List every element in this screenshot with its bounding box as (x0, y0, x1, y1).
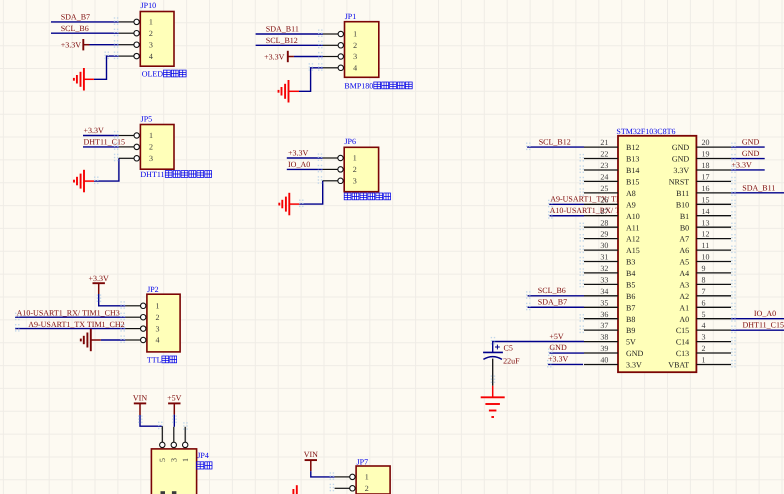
svg-text:2: 2 (149, 143, 153, 152)
svg-text:5V: 5V (626, 338, 636, 347)
svg-text:32: 32 (600, 264, 608, 273)
svg-text:B7: B7 (626, 303, 635, 312)
svg-text:2: 2 (149, 29, 153, 38)
svg-text:SCL_B6: SCL_B6 (61, 24, 89, 33)
ground (JP1) (289, 90, 300, 92)
svg-text:3: 3 (149, 154, 153, 163)
JP4 bottom pin number fragments (161, 491, 166, 494)
svg-text:A2: A2 (679, 292, 689, 301)
svg-text:37: 37 (600, 321, 608, 330)
U1 pin 18 (3.3V) (696, 169, 731, 171)
connector JP5 (140, 125, 174, 170)
U1 pin 5 (A0) (696, 318, 731, 320)
svg-text:A6: A6 (679, 246, 689, 255)
svg-text:OLED: OLED (142, 69, 164, 78)
svg-text:BMP180: BMP180 (344, 81, 373, 90)
svg-text:14: 14 (702, 207, 710, 216)
U1 pin 40 (3.3V) (584, 364, 618, 366)
wire A10-USART1_RX to JP2 pin2 (15, 316, 125, 318)
wire U1 pin19 to GND (731, 158, 765, 160)
svg-text:+3.3V: +3.3V (89, 274, 110, 283)
ground (partial, bottom edge) (296, 485, 298, 494)
connector JP10 (140, 12, 174, 67)
ground (JP2, dark) (91, 339, 101, 341)
wire U1 pin4 DHT11_C15 (731, 329, 784, 331)
svg-text:2: 2 (353, 165, 357, 174)
svg-text:+5V: +5V (167, 393, 182, 402)
svg-text:A3: A3 (679, 280, 689, 289)
wire +5V to JP4 pin3 (173, 415, 175, 427)
U1 pin 1 (VBAT) (696, 364, 731, 366)
svg-text:GND: GND (672, 143, 690, 152)
U1 pin 26 (A9) (584, 203, 618, 205)
svg-text:12: 12 (702, 230, 710, 239)
wire JP6 pin3 to ground (299, 181, 322, 204)
svg-text:IO_A0: IO_A0 (288, 160, 310, 169)
ground (C5) (492, 386, 494, 398)
svg-text:SCL_B12: SCL_B12 (539, 138, 571, 147)
wire C5 to ground (492, 359, 494, 386)
svg-text:B4: B4 (626, 269, 635, 278)
svg-text:20: 20 (702, 138, 710, 147)
svg-text:16: 16 (702, 184, 710, 193)
U1 pin 17 (NRST) (696, 180, 731, 182)
svg-text:2: 2 (156, 313, 160, 322)
wire +5V rail from C5 to U1 pin38 (493, 342, 584, 353)
svg-text:GND: GND (549, 343, 567, 352)
wire U1 pin5 IO_A0 (731, 318, 784, 320)
svg-text:+3.3V: +3.3V (732, 161, 753, 170)
svg-text:2: 2 (702, 344, 706, 353)
svg-text:5: 5 (702, 310, 706, 319)
svg-text:B3: B3 (626, 258, 635, 267)
svg-text:A10-USART1_RX/ TIM1_CH3: A10-USART1_RX/ TIM1_CH3 (17, 308, 120, 317)
svg-text:6: 6 (702, 298, 706, 307)
svg-text:A0: A0 (679, 315, 689, 324)
JP5 pin 3 (119, 157, 134, 159)
wire U1 pin16 SDA_B11 (731, 192, 784, 194)
U1 pin 15 (B10) (696, 203, 731, 205)
connector JP7 (356, 466, 390, 494)
wire JP5 pin3 to ground (94, 158, 119, 181)
U1 pin 11 (A6) (696, 249, 731, 251)
svg-text:5: 5 (158, 458, 167, 462)
svg-text:DHT11_C15: DHT11_C15 (84, 138, 125, 147)
svg-text:STM32F103C8T6: STM32F103C8T6 (616, 127, 675, 136)
svg-text:B15: B15 (626, 178, 639, 187)
svg-text:3: 3 (353, 52, 357, 61)
svg-text:2: 2 (365, 484, 369, 493)
wire U1 pin18 to +3.3V (731, 169, 765, 171)
U1 pin 33 (B5) (584, 283, 618, 285)
wire JP10 pin4 to ground (94, 56, 119, 79)
svg-text:4: 4 (149, 52, 153, 61)
svg-text:34: 34 (600, 287, 608, 296)
svg-text:39: 39 (600, 344, 608, 353)
svg-text:21: 21 (600, 138, 608, 147)
JP4 pin 3 (173, 427, 175, 443)
U1 pin 23 (B14) (584, 169, 618, 171)
wire +3.3V to U1 pin40 (548, 363, 583, 365)
U1 pin 35 (B7) (584, 306, 618, 308)
svg-text:B13: B13 (626, 155, 639, 164)
svg-text:JP1: JP1 (345, 12, 357, 21)
svg-text:VIN: VIN (304, 450, 318, 459)
wire JP2 pin4 to ground (101, 339, 126, 341)
JP10 pin 3 (119, 44, 134, 46)
svg-text:DHT11: DHT11 (140, 170, 164, 179)
svg-text:GND: GND (742, 149, 760, 158)
svg-text:GND: GND (672, 155, 690, 164)
U1 pin 14 (B1) (696, 215, 731, 217)
svg-text:15: 15 (702, 195, 710, 204)
svg-text:31: 31 (600, 253, 608, 262)
svg-text:SDA_B11: SDA_B11 (742, 183, 775, 192)
svg-text:29: 29 (600, 230, 608, 239)
svg-text:30: 30 (600, 241, 608, 250)
svg-text:22uF: 22uF (503, 357, 520, 366)
U1 pin 25 (A8) (584, 192, 618, 194)
power +3.3V for JP10 pin3 (82, 39, 84, 50)
svg-text:+3.3V: +3.3V (288, 149, 309, 158)
JP5 pin 2 (119, 146, 134, 148)
svg-text:C5: C5 (504, 343, 513, 352)
svg-text:13: 13 (702, 218, 710, 227)
svg-text:VBAT: VBAT (668, 361, 689, 370)
U1 pin 13 (B0) (696, 226, 731, 228)
JP1 pin 1 (323, 33, 338, 35)
svg-text:3.3V: 3.3V (673, 166, 689, 175)
U1 pin 20 (GND) (696, 146, 731, 148)
svg-text:1: 1 (181, 458, 190, 462)
svg-text:B8: B8 (626, 315, 635, 324)
JP4 pin 5 (161, 426, 163, 442)
ground (JP6) (289, 203, 299, 205)
wire to U1 pin27 (A10 USART1_RX) (550, 215, 584, 217)
svg-text:A15: A15 (626, 246, 640, 255)
wire DHT11_C15 to JP5 pin2 (83, 146, 119, 148)
svg-text:NRST: NRST (669, 178, 690, 187)
wire SCL_B6 to JP10 pin2 (51, 32, 119, 34)
svg-text:25: 25 (600, 184, 608, 193)
connector JP4 (151, 449, 196, 494)
svg-text:24: 24 (600, 173, 608, 182)
U1 pin 4 (C15) (696, 329, 731, 331)
wire SCL_B12 to U1 pin21 (527, 146, 584, 148)
JP1 pin 2 (323, 44, 338, 46)
svg-text:A7: A7 (679, 235, 689, 244)
U1 pin 12 (A7) (696, 238, 731, 240)
svg-text:SDA_B7: SDA_B7 (538, 298, 567, 307)
capacitor C5 22uF (483, 351, 503, 353)
wire IO_A0 to JP6 pin2 (287, 168, 323, 170)
svg-text:A12: A12 (626, 235, 640, 244)
svg-text:A9: A9 (626, 200, 636, 209)
svg-text:B1: B1 (680, 212, 689, 221)
wire VIN to JP4 pin5 (140, 415, 162, 426)
svg-text:TTL: TTL (147, 355, 162, 364)
JP7 pin 2 (335, 487, 350, 489)
U1 pin 2 (C13) (696, 352, 731, 354)
power VIN for JP4 (134, 402, 146, 404)
svg-text:B6: B6 (626, 292, 635, 301)
svg-text:SDA_B11: SDA_B11 (266, 25, 299, 34)
op-amp/MCU U1 STM32F103C8T6 body (618, 136, 696, 372)
svg-text:B9: B9 (626, 326, 635, 335)
U1 pin 7 (A2) (696, 295, 731, 297)
wire VIN to JP7 pin1 (311, 471, 335, 477)
svg-text:9: 9 (702, 264, 706, 273)
U1 pin 24 (B15) (584, 180, 618, 182)
power +3.3V for JP1 pin3 (287, 51, 289, 62)
wire JP1 pin4 to ground (299, 68, 323, 92)
JP6 pin 2 (323, 168, 338, 170)
U1 pin 39 (GND) (584, 352, 618, 354)
svg-text:DHT11_C15: DHT11_C15 (743, 320, 784, 329)
svg-text:JP10: JP10 (141, 1, 157, 10)
U1 pin 19 (GND) (696, 158, 731, 160)
svg-text:19: 19 (702, 150, 710, 159)
svg-text:1: 1 (702, 356, 706, 365)
svg-text:B10: B10 (676, 200, 689, 209)
svg-text:C13: C13 (676, 349, 689, 358)
U1 pin 6 (A1) (696, 306, 731, 308)
svg-text:17: 17 (702, 173, 710, 182)
svg-text:35: 35 (600, 298, 608, 307)
svg-text:JP7: JP7 (357, 457, 369, 466)
svg-text:27: 27 (600, 207, 608, 216)
svg-text:4: 4 (353, 64, 357, 73)
JP6 pin 3 (323, 180, 338, 182)
JP10 pin 4 (119, 55, 134, 57)
wire to U1 pin26 (A9 USART1_TX) (549, 203, 584, 205)
JP10 pin 1 (119, 21, 134, 23)
JP6 pin 1 (323, 157, 338, 159)
power VIN for JP7 (305, 459, 317, 461)
U1 pin 22 (B13) (584, 158, 618, 160)
svg-text:VIN: VIN (133, 393, 147, 402)
svg-text:3: 3 (170, 458, 179, 462)
svg-text:10: 10 (702, 253, 710, 262)
U1 pin 29 (A12) (584, 238, 618, 240)
U1 pin 27 (A10) (584, 215, 618, 217)
U1 pin 32 (B4) (584, 272, 618, 274)
U1 pin 10 (A5) (696, 261, 731, 263)
svg-text:23: 23 (600, 161, 608, 170)
svg-text:1: 1 (365, 473, 369, 482)
U1 pin 34 (B6) (584, 295, 618, 297)
svg-text:+3.3V: +3.3V (548, 355, 569, 364)
power +3.3V for JP2 pin1 (93, 282, 105, 284)
svg-text:11: 11 (702, 241, 710, 250)
svg-text:+3.3V: +3.3V (264, 53, 285, 62)
svg-text:22: 22 (600, 150, 608, 159)
JP5 pin 1 (119, 135, 134, 137)
svg-text:3: 3 (156, 324, 160, 333)
wire SCL_B6 to U1 pin34 (528, 295, 584, 297)
JP2 pin 1 (125, 305, 140, 307)
svg-text:SCL_B12: SCL_B12 (266, 36, 298, 45)
svg-text:1: 1 (156, 302, 160, 311)
svg-text:+3.3V: +3.3V (61, 41, 82, 50)
title switch (CJK) (197, 462, 204, 469)
svg-text:+5V: +5V (549, 332, 564, 341)
svg-text:3: 3 (149, 40, 153, 49)
svg-text:A11: A11 (626, 223, 639, 232)
connector JP1 (345, 22, 379, 78)
svg-text:1: 1 (353, 154, 357, 163)
title harmful gas detection (CJK) (344, 193, 351, 200)
wire A9-USART1_TX to JP2 pin3 (15, 328, 125, 330)
wire SDA_B11 to JP1 pin1 (256, 33, 323, 35)
svg-text:A4: A4 (679, 269, 689, 278)
svg-text:A10: A10 (626, 212, 640, 221)
U1 pin 21 (B12) (584, 146, 618, 148)
svg-text:1: 1 (149, 131, 153, 140)
U1 pin 30 (A15) (584, 249, 618, 251)
U1 pin 31 (B3) (584, 261, 618, 263)
svg-text:A9-USART1_TX TIM1_CH2: A9-USART1_TX TIM1_CH2 (28, 320, 124, 329)
JP2 pin 4 (125, 339, 140, 341)
wire U1 pin20 to GND (731, 146, 765, 148)
U1 pin 37 (B9) (584, 329, 618, 331)
svg-text:JP2: JP2 (147, 285, 159, 294)
svg-text:1: 1 (149, 18, 153, 27)
svg-text:B11: B11 (676, 189, 689, 198)
svg-text:A1: A1 (679, 303, 689, 312)
svg-text:3: 3 (353, 177, 357, 186)
U1 pin 36 (B8) (584, 318, 618, 320)
svg-text:4: 4 (156, 336, 160, 345)
U1 pin 8 (A3) (696, 283, 731, 285)
svg-text:GND: GND (626, 349, 644, 358)
svg-text:B14: B14 (626, 166, 639, 175)
connector JP2 (147, 294, 180, 352)
U1 pin 9 (A4) (696, 272, 731, 274)
svg-text:JP4: JP4 (197, 451, 209, 460)
svg-text:3.3V: 3.3V (626, 361, 642, 370)
U1 pin 28 (A11) (584, 226, 618, 228)
svg-text:C14: C14 (676, 338, 689, 347)
svg-text:JP5: JP5 (141, 114, 153, 123)
U1 pin 3 (C14) (696, 341, 731, 343)
svg-text:GND: GND (742, 138, 760, 147)
svg-text:4: 4 (702, 321, 706, 330)
wire SCL_B12 to JP1 pin2 (256, 44, 323, 46)
JP4 pin 1 (184, 427, 186, 443)
svg-text:2: 2 (353, 41, 357, 50)
svg-text:1: 1 (353, 30, 357, 39)
wire GND to U1 pin39 (549, 352, 584, 354)
svg-text:B0: B0 (680, 223, 689, 232)
svg-text:26: 26 (600, 195, 608, 204)
svg-text:B12: B12 (626, 143, 639, 152)
power +5V for JP4 (168, 402, 180, 404)
JP2 pin 2 (125, 316, 140, 318)
svg-text:SCL_B6: SCL_B6 (538, 286, 566, 295)
svg-text:28: 28 (600, 218, 608, 227)
ground (JP10) (84, 78, 94, 80)
svg-text:B5: B5 (626, 280, 635, 289)
wire SDA_B7 to U1 pin35 (528, 306, 584, 308)
svg-text:SDA_B7: SDA_B7 (61, 13, 90, 22)
svg-text:8: 8 (702, 275, 706, 284)
svg-text:40: 40 (600, 356, 608, 365)
svg-text:38: 38 (600, 333, 608, 342)
JP1 pin 4 (323, 67, 338, 69)
U1 pin 38 (5V) (584, 341, 618, 343)
wire from +3.3V to JP2 pin1 (99, 294, 126, 306)
JP1 pin 3 (323, 56, 338, 58)
svg-text:3: 3 (702, 333, 706, 342)
svg-text:JP6: JP6 (344, 137, 356, 146)
svg-text:7: 7 (702, 287, 706, 296)
svg-text:A8: A8 (626, 189, 636, 198)
U1 pin 16 (B11) (696, 192, 731, 194)
JP7 pin 1 (335, 476, 350, 478)
svg-text:33: 33 (600, 275, 608, 284)
wire +3.3V net to JP6 pin1 (287, 157, 323, 159)
svg-text:C15: C15 (676, 326, 689, 335)
JP2 pin 3 (125, 328, 140, 330)
svg-text:IO_A0: IO_A0 (754, 309, 776, 318)
wire SDA_B7 to JP10 pin1 (51, 21, 119, 23)
connector JP6 (344, 147, 378, 191)
svg-text:A5: A5 (679, 258, 689, 267)
wire +3.3V net to JP5 pin1 (83, 135, 119, 137)
ground (JP5) (84, 180, 94, 182)
svg-text:18: 18 (702, 161, 710, 170)
svg-text:36: 36 (600, 310, 608, 319)
svg-text:+3.3V: +3.3V (84, 126, 105, 135)
JP10 pin 2 (119, 32, 134, 34)
